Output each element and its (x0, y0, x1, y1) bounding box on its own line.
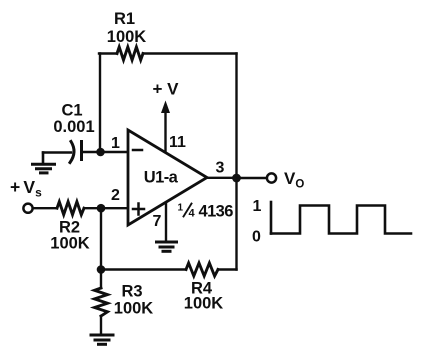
wire: node C down to R3 (100, 270, 102, 289)
wire: R2 to node B (84, 207, 101, 209)
svg-text:3: 3 (216, 160, 225, 177)
resistor R4 (186, 263, 218, 276)
+V supply arrow (pin 11) (164, 110, 166, 152)
svg-text:U1-a: U1-a (144, 169, 179, 187)
svg-text:R3: R3 (121, 283, 142, 301)
svg-text:1: 1 (253, 198, 262, 215)
svg-text:R1: R1 (114, 10, 135, 28)
svg-text:11: 11 (169, 134, 186, 151)
resistor R3 (95, 288, 108, 316)
svg-text:100K: 100K (50, 235, 90, 253)
svg-text:0.001: 0.001 (53, 118, 94, 136)
svg-text:C1: C1 (61, 102, 82, 120)
wire: R3 to ground (100, 316, 102, 334)
wire: node B down to node C (100, 208, 102, 269)
wire: op-amp output (pin 3) to node D (207, 177, 237, 179)
wire: bottom, node C to R4 (101, 268, 186, 270)
waveform Vo square wave (271, 202, 411, 234)
wire: R4 to right vertical (218, 268, 237, 270)
ground (pin 7) (157, 242, 177, 251)
resistor R1 (117, 47, 143, 60)
wire: right vertical feedback (top wire down to bottom wire) (235, 54, 237, 270)
node D (output junction with feedback) (232, 174, 241, 183)
wire: node B to op-amp pin 2 (101, 207, 129, 209)
wire: left vertical feedback (to node A) (99, 54, 101, 153)
ground (below R3) (91, 335, 113, 344)
svg-text:100K: 100K (114, 300, 154, 318)
wire: pin 7 to ground (165, 203, 167, 242)
svg-text:2: 2 (111, 187, 120, 204)
node B (junction R2 / pin 2 / R3) (97, 204, 106, 213)
wire: node D to output terminal (237, 177, 267, 179)
node C (junction R3 / R4 bottom wire) (97, 265, 106, 274)
svg-text:+Vs: +Vs (10, 177, 42, 200)
output terminal Vo (267, 173, 276, 182)
ground (left of C1) (33, 153, 55, 173)
wire: C1 to node A (82, 151, 100, 153)
op-amp U1-a (128, 130, 207, 225)
svg-text:1: 1 (111, 135, 120, 152)
wire: ground to C1 (43, 151, 71, 153)
capacitor C1 (70, 142, 82, 163)
svg-text:100K: 100K (107, 28, 147, 46)
input terminal +Vs (23, 204, 32, 213)
U1-a inverting input marker (-) (133, 149, 142, 152)
wire: top feedback, left segment (99, 52, 117, 54)
wire: node A to op-amp pin 1 (100, 151, 129, 153)
svg-text:4136: 4136 (199, 203, 234, 221)
resistor R2 (57, 202, 84, 215)
svg-text:100K: 100K (184, 295, 224, 313)
U1-a non-inverting input marker (+) (133, 204, 144, 215)
svg-text:VO: VO (284, 169, 304, 191)
svg-text:1: 1 (178, 203, 184, 214)
svg-text:4: 4 (189, 208, 196, 220)
wire: top feedback, right segment (143, 52, 237, 54)
svg-text:0: 0 (252, 229, 261, 246)
svg-text:7: 7 (153, 213, 162, 230)
node A (junction C1 / feedback / pin 1) (96, 148, 105, 157)
svg-text:+ V: + V (153, 80, 180, 99)
wire: terminal to R2 (34, 207, 58, 209)
